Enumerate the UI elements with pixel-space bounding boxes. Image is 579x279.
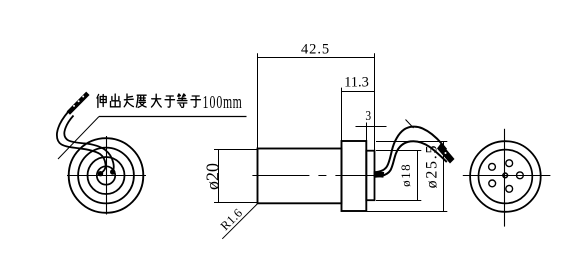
dim d20 ext top [214, 149, 258, 151]
coil centerline vertical [106, 136, 108, 215]
char 等 [177, 94, 187, 107]
R1.6 leader [222, 204, 257, 239]
dim d25.5 ext bottom [367, 211, 447, 213]
pin bottom [506, 185, 513, 192]
char 度 [136, 95, 146, 107]
cable edge right [64, 116, 113, 172]
coil centerline horizontal [67, 175, 146, 177]
char 出 [111, 94, 121, 107]
coil circle 4 [97, 166, 115, 184]
dim 3 line [356, 126, 387, 128]
dim 42.5 ext line left [257, 53, 259, 148]
cable tip (solid) [67, 92, 89, 114]
side wire exit blob [374, 171, 385, 177]
dim d20 ext bottom [214, 202, 258, 204]
coil circle 2 [78, 148, 134, 204]
flange rect (d25.5) [342, 141, 367, 211]
cable tip specks [73, 105, 75, 107]
svg-text:3: 3 [365, 108, 371, 123]
crosshair horizontal [463, 175, 551, 177]
dim 42.5 ext line right (down to rear) [374, 53, 376, 150]
pin lower-left [489, 180, 496, 187]
leader horizontal under text [99, 116, 247, 118]
side wire tip blob [437, 143, 455, 164]
dim d25.5 ext top [376, 141, 447, 143]
side wire strand A (outer) [375, 127, 446, 173]
leader diagonal [58, 117, 99, 160]
svg-text:11.3: 11.3 [344, 75, 369, 91]
coil circle 3 [88, 157, 125, 194]
center pin [503, 173, 508, 178]
outer circle [470, 141, 541, 212]
dim d18 line [417, 151, 419, 201]
dim d18 ext top [376, 150, 421, 152]
note text (hand-drawn CJK strokes): 伸出长度大于等于100mm [97, 94, 200, 108]
wire end dot B [110, 169, 115, 174]
char 伸 [97, 95, 106, 108]
coil circle outer [69, 138, 144, 213]
side wire tip speck [445, 152, 447, 154]
dim d18 ext bottom [376, 200, 421, 202]
dim 42.5 line [258, 57, 375, 59]
wire end dot A [98, 171, 103, 176]
crosshair vertical [504, 129, 506, 227]
rear rect (d18) [366, 151, 374, 201]
svg-text:42.5: 42.5 [301, 42, 330, 58]
dim d20 line [218, 150, 220, 203]
dim d25.5 line [443, 142, 445, 212]
svg-text:mm: mm [223, 92, 242, 112]
cable edge left [57, 112, 106, 173]
char 大 [152, 94, 162, 107]
svg-text:ø20: ø20 [202, 163, 222, 190]
char 长 [124, 94, 133, 107]
centerline (dash-dot) [252, 175, 376, 177]
char 于 (2) [191, 96, 200, 107]
main body rect (d20) [258, 149, 342, 204]
svg-text:ø25.5: ø25.5 [424, 144, 441, 189]
pin upper-left [489, 163, 496, 170]
dim 3 ext line [366, 123, 368, 142]
char 于 (1) [165, 96, 174, 107]
dim 11.3 ext line left [341, 88, 343, 141]
svg-text:ø18: ø18 [398, 163, 413, 187]
side wire strand B (inner) [375, 141, 447, 177]
pin top [506, 160, 513, 167]
side wire break tick [406, 120, 414, 129]
dim 11.3 line [342, 91, 375, 93]
pin right [517, 172, 524, 179]
svg-text:100: 100 [203, 94, 224, 113]
inner circle [479, 150, 533, 204]
